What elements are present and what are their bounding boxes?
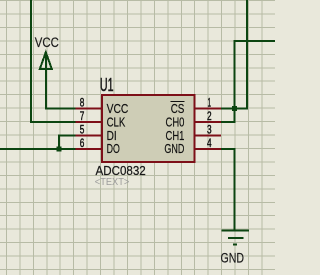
svg-text:6: 6 — [80, 137, 85, 150]
CS active-low overline — [171, 101, 185, 103]
pin 8 stub VCC — [76, 108, 103, 110]
svg-text:CH0: CH0 — [166, 115, 185, 129]
pin 6 stub DO — [76, 148, 103, 150]
svg-text:CS: CS — [171, 102, 185, 116]
IC U1 body — [102, 95, 195, 162]
ground symbol — [222, 230, 250, 244]
svg-text:DO: DO — [107, 142, 120, 156]
svg-text:DI: DI — [107, 129, 117, 143]
svg-text:2: 2 — [207, 110, 212, 123]
svg-text:1: 1 — [208, 97, 212, 110]
wire DO net to left edge — [0, 148, 76, 150]
pin 1 stub CS — [194, 108, 221, 110]
pin 5 stub DI — [76, 135, 103, 137]
svg-text:GND: GND — [221, 251, 245, 267]
wire CS net to top edge — [220, 0, 247, 109]
svg-text:GND: GND — [164, 142, 184, 156]
wire GND net — [220, 149, 235, 230]
pin 2 stub CH0 — [194, 121, 221, 123]
svg-text:CLK: CLK — [107, 115, 126, 129]
svg-text:CH1: CH1 — [166, 129, 185, 143]
svg-text:3: 3 — [207, 124, 212, 137]
svg-text:4: 4 — [207, 137, 212, 150]
wire CH0 net to right edge — [220, 41, 275, 122]
svg-text:7: 7 — [80, 110, 85, 123]
svg-text:5: 5 — [80, 124, 85, 137]
svg-text:U1: U1 — [100, 75, 114, 95]
svg-text:<TEXT>: <TEXT> — [95, 176, 130, 188]
power symbol VCC (arrow) — [40, 52, 77, 108]
svg-text:VCC: VCC — [107, 102, 129, 116]
junction CS/CH0 branch — [232, 106, 237, 111]
wire DI net — [59, 136, 76, 149]
svg-text:8: 8 — [80, 97, 85, 110]
pin 7 stub CLK — [76, 121, 103, 123]
junction DI/DO — [56, 146, 61, 151]
svg-text:VCC: VCC — [35, 35, 59, 51]
pin 3 stub CH1 — [194, 135, 221, 137]
wire CLK net from top edge — [31, 0, 76, 122]
pin 4 stub GND — [194, 148, 221, 150]
